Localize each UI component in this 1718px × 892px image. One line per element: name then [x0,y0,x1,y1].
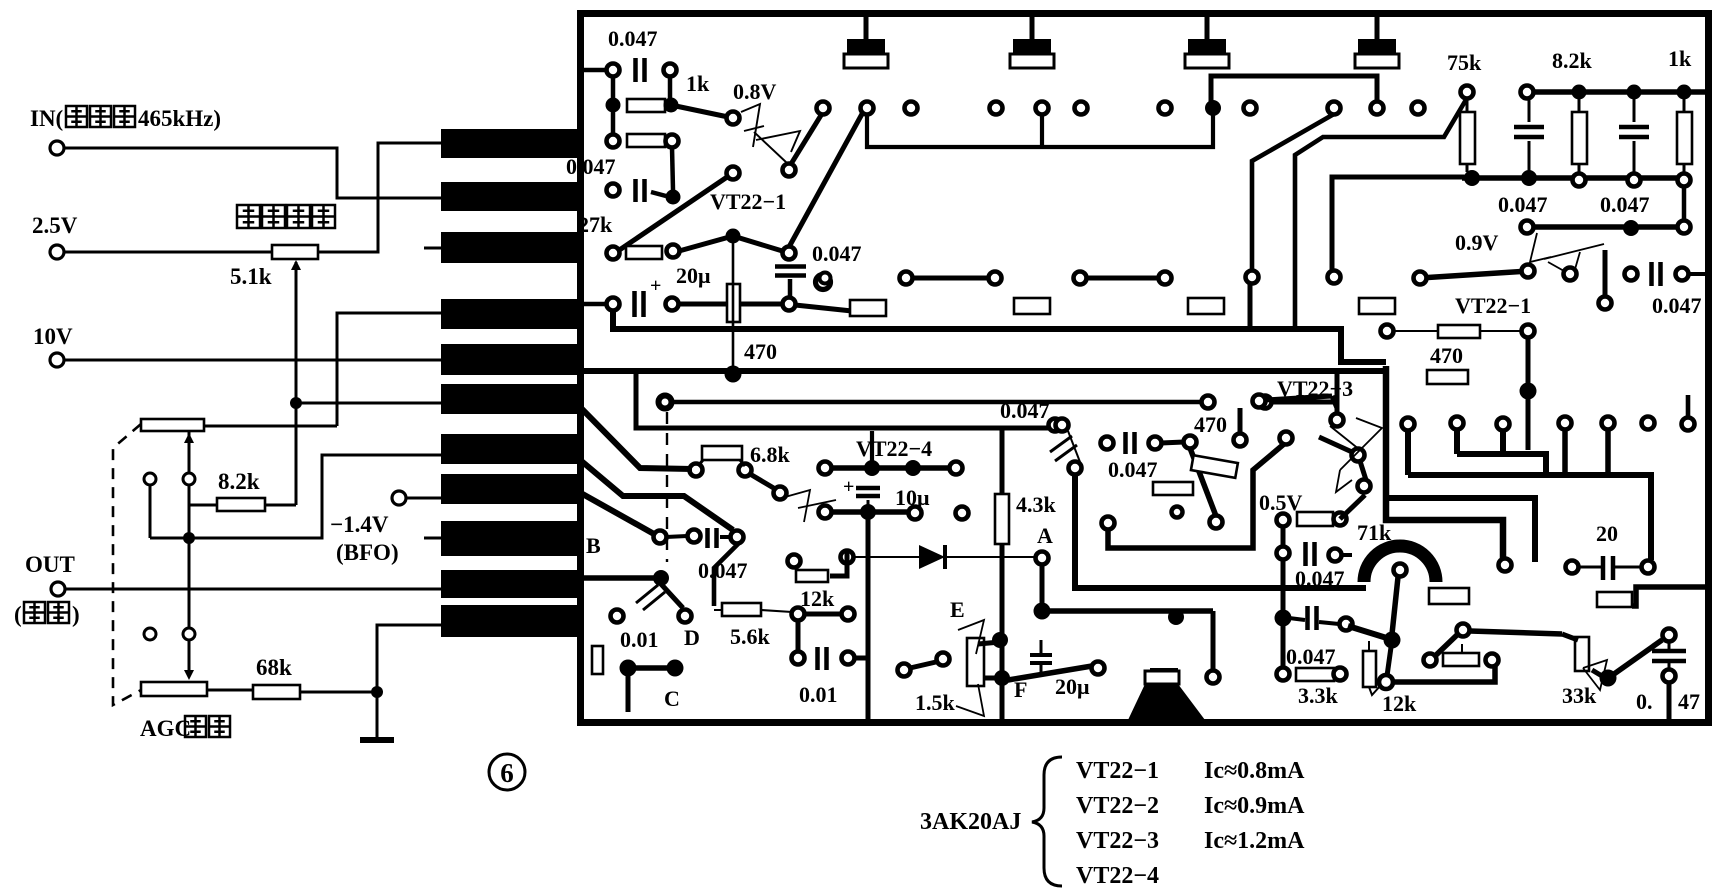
wire BFO to pin8 [406,497,441,500]
junction C b [667,660,684,677]
wire y614 [804,612,842,617]
pad c mid r [1149,437,1162,450]
svg-text:D: D [684,625,700,650]
connector finger pin10 [441,570,579,598]
pad c right 2 [1676,268,1689,281]
trace L5 [1386,498,1535,562]
junction [1572,85,1587,100]
circled 6 figure number [489,754,525,790]
wire diag 33cluster [1434,634,1458,657]
wire [1615,566,1641,569]
wire to bottom edge [1667,682,1672,719]
pad y277 end [1328,271,1341,284]
capacitor 0.047 br [1652,649,1686,654]
wire x1528 down [1526,337,1531,450]
wire [854,656,868,661]
pad 27k right [667,245,680,258]
capacitor 20u [632,291,637,317]
pad top row x1334 [1328,102,1341,115]
pad 20 b [1642,561,1655,574]
transistor VT22-3 symbol [1330,418,1382,492]
pad top row x996 [990,102,1003,115]
pad y227 left [1521,221,1534,234]
resistor 6.8k body [702,446,742,460]
svg-text:VT22−1: VT22−1 [710,189,786,214]
wire 10V to pin5 [64,359,441,362]
wire diagonal 2 [791,112,823,164]
wire diode row [853,556,1035,558]
wire [1360,461,1366,480]
wire R68k right [300,691,377,694]
pad y278 e [1159,272,1172,285]
transistor VT22-1 symbol [741,104,800,163]
junction 05 [1275,610,1292,627]
resistor 27k body [626,246,662,259]
wire [796,620,801,652]
svg-text:1k: 1k [1668,46,1692,71]
capacitor 0047 05b [1305,606,1310,630]
jumper box mid [1153,482,1193,495]
resistor 4.3k body [995,494,1009,544]
svg-text:4.3k: 4.3k [1016,492,1057,517]
wire pot1 wiper [188,431,191,473]
trace right step [1632,587,1706,606]
pad 6.8k left [690,464,703,477]
pad y227 right [1678,221,1691,234]
wire x1283 down [1281,526,1286,668]
wire stub e [1605,429,1611,472]
wire pot1 to pin4 [337,313,441,426]
potentiometer AGC body [141,682,207,696]
jumper left edge [592,646,603,674]
potentiometer 1.5k body [967,638,984,686]
pad 20 a [1566,561,1579,574]
wire [1683,164,1686,176]
pad 6.8k right [739,464,752,477]
wire [1528,98,1531,122]
trace y427 [636,373,1049,428]
svg-text:20μ: 20μ [676,263,711,288]
wire diag [1319,437,1352,452]
terminal 10V [50,353,64,367]
wire diag [661,584,683,608]
trace y371 long [584,368,1386,374]
pad slant right [1522,265,1535,278]
pad staircase top [1280,432,1293,445]
wire riser [1040,114,1044,147]
connector finger pin3 [441,232,579,263]
wire y668 [628,665,675,671]
wire stub b [1454,429,1460,454]
pad VT22-3 d [1358,480,1371,493]
capacitor 0.047 B [705,528,710,548]
trace big C [1075,474,1366,588]
pad 12k wiper [1379,675,1393,689]
junction y468 b [905,460,921,476]
wire R5.1k to pin1 [318,143,441,252]
wire [788,279,793,298]
trace vertical divider x1386 [1386,366,1503,558]
svg-text:IN(: IN( [30,106,63,131]
wire VT22-3 bend [1332,396,1337,408]
pad pot wiper node [183,473,195,485]
junction b [666,190,681,205]
wire top bus [867,114,1213,147]
wire y177 left arm [1332,177,1470,271]
terminal OUT [51,582,65,596]
svg-text:47: 47 [1678,689,1700,714]
pad 4.3k left [956,507,969,520]
junction [1677,85,1692,100]
ground [360,737,394,743]
wire 2.5V to R 5.1k [64,251,272,254]
dashed section line [666,412,668,562]
pad 1240 [1234,434,1247,447]
junction y468 a [864,460,880,476]
pad VT22-3 c [1352,449,1365,462]
pad 0047 d1 [1056,419,1069,432]
trace pin8 to B pad [579,492,654,534]
wire [1578,98,1581,112]
trace pin6 to 6.8k [579,406,692,469]
wire 71k down [1392,577,1398,634]
hanzi she [237,205,260,228]
resistor 470 slanted body [1191,455,1238,478]
junction y611 b [1168,609,1184,625]
wire wiper to pin6 [296,402,441,405]
pad c mid r2 [1184,436,1197,449]
svg-text:20μ: 20μ [1055,674,1090,699]
pad top row x1165 [1159,102,1172,115]
wire bent trace [1252,114,1334,271]
svg-text:5.6k: 5.6k [730,624,771,649]
pad row424 e [1602,417,1615,430]
wire 5.6k right [761,610,792,612]
wire [1578,566,1601,569]
junction A bottom [1034,603,1051,620]
jumper box 470u [1427,370,1468,384]
pad 05 c [1277,547,1290,560]
svg-text:2.5V: 2.5V [32,213,78,238]
resistor r2 body [627,134,665,147]
wire stub c [1500,430,1506,452]
svg-text:0.9V: 0.9V [1455,230,1499,255]
svg-text:0.047: 0.047 [1286,644,1336,669]
resistor 1k body [1677,112,1692,164]
pad c right 1 [1625,268,1638,281]
wire [1068,431,1080,462]
wire [720,535,731,539]
trace end block [1150,668,1178,690]
wire [1668,641,1671,650]
svg-text:20: 20 [1596,521,1618,546]
connector finger pin9 B [441,521,579,556]
pad c1 left [607,64,620,77]
svg-text:+: + [843,476,854,498]
resistor vertical jumper [727,284,740,322]
terminal 2.5V [50,245,64,259]
jumper box right [1597,592,1632,607]
wire pot2 wiper [188,640,191,676]
hanzi zhi [209,716,230,737]
junction y227 [1623,220,1639,236]
dashed gang coupling line [113,424,141,705]
junction C a [620,660,637,677]
junction wiper [290,397,302,409]
junction y512 [860,504,876,520]
wire stub a [1405,430,1411,475]
svg-text:Ic≈1.2mA: Ic≈1.2mA [1204,828,1305,854]
pad 33cluster a [1424,654,1437,667]
pad gang node [144,473,156,485]
wire diag 05 [1340,495,1365,519]
junction 71k [1384,632,1401,649]
pad y178 d [1628,174,1641,187]
connector finger pin1 [441,129,579,158]
PCB board outline [581,14,1709,723]
junction 470 [725,366,742,383]
svg-text:AGC: AGC [140,716,191,741]
capacitor 20 [1601,556,1606,580]
transistor E symbol [956,620,984,716]
svg-text:0.01: 0.01 [799,682,838,707]
svg-text:B: B [586,533,601,558]
svg-text:0.047: 0.047 [1652,293,1702,318]
wire wiper lead [1461,644,1463,653]
pad r2 left [607,135,620,148]
wire pot2 to R68k [207,689,253,692]
pad F left [898,664,911,677]
wire [1341,553,1352,557]
svg-text:0.01: 0.01 [620,627,659,652]
connector finger pin6 [441,384,579,414]
pad c1 right [664,64,677,77]
wire [1578,164,1581,174]
wire [867,500,870,506]
pad y468 a [819,462,832,475]
wire R8.2k to vertical [265,504,296,507]
capacitor 8.2k bank c2 [1619,125,1649,130]
wire top bus right [1527,89,1706,95]
wire right col [1682,186,1687,221]
resistor 8.2k [217,498,265,511]
svg-text:0.: 0. [1636,689,1653,714]
wire 12k top lead [1368,641,1370,651]
wire [1335,402,1340,414]
wire y468 bus [825,465,956,471]
svg-text:VT22−2: VT22−2 [1076,793,1159,819]
wire [668,76,673,100]
wire y512 bus [825,509,915,515]
pad row424 d [1559,417,1572,430]
pad 470u left [1381,325,1394,338]
jumper box x1014 [1014,298,1050,314]
capacitor 0.047 c3 [775,264,806,269]
wire VT22-3 up [1335,372,1340,414]
svg-text:10V: 10V [33,324,73,349]
svg-text:6: 6 [500,758,514,788]
svg-text:470: 470 [1430,343,1463,368]
wire [1319,622,1339,624]
hanzi zeng [287,205,310,228]
svg-text:): ) [72,602,80,627]
svg-text:6.8k: 6.8k [750,442,791,467]
wire riser x872 [870,431,874,462]
svg-text:Ic≈0.8mA: Ic≈0.8mA [1204,758,1305,784]
brace [1032,757,1062,886]
pad row424 f [1642,417,1655,430]
jumper box x1359 [1359,298,1395,314]
svg-text:1k: 1k [686,71,710,96]
wire y278 seg2 [1086,276,1159,281]
pad 001 right [679,610,692,623]
pad row424 c [1497,418,1510,431]
wire [698,460,703,466]
svg-text:0.047: 0.047 [1600,192,1650,217]
trace y329 long [613,310,1386,362]
pad 20u row right [783,298,796,311]
pad row424 b [1451,417,1464,430]
pad 20u left [607,298,620,311]
hanzi er [66,106,87,127]
svg-text:465kHz): 465kHz) [138,106,221,131]
pad 0047 br a [1663,629,1676,642]
wire slight diagonal [795,305,852,311]
junction y578 [653,570,669,586]
svg-text:3.3k: 3.3k [1298,683,1339,708]
wire [978,642,1000,644]
wire to VT22-1 base pad [671,105,733,118]
capacitor 0.01 mid [815,647,820,670]
pad y614 b [842,608,855,621]
wire y633 [1470,631,1562,634]
junction x1528 [1520,383,1537,400]
wire y227 bus [1527,224,1684,230]
junction wiper bus [183,532,195,544]
capacitor 0.047 right [1649,262,1654,286]
connector finger pin4 [441,299,579,329]
junction y178 b [1521,170,1537,186]
wire gang bus [150,537,189,540]
wire [1528,141,1531,172]
trimmer capacitor [1375,17,1380,40]
trace 71k arc [1364,546,1436,582]
pad y468 b [950,462,963,475]
pad VT22-1 emitter [727,167,740,180]
junction peak [726,229,741,244]
hanzi pin2 [262,205,285,228]
wire 470u lead 2 [1480,330,1521,332]
pad lone [816,275,831,290]
jumper box x1188 [1188,298,1224,314]
svg-text:E: E [950,597,965,622]
capacitor diagonal marks 2 [1050,436,1072,452]
pad F right [1092,662,1105,675]
pad y614 a [792,608,805,621]
pad VT22-3 a [1331,414,1344,427]
pad mid [1564,268,1577,281]
hanzi yin [24,602,45,623]
svg-text:8.2k: 8.2k [1552,48,1593,73]
wire [611,76,616,100]
pad 05 e [1340,618,1353,631]
pad A [1036,552,1049,565]
svg-text:1.5k: 1.5k [915,690,956,715]
wire diag 33k [1614,640,1662,674]
pad 0047 br b [1663,670,1676,683]
pad VT22-1 base [727,112,740,125]
junction y178 a [1464,170,1480,186]
pad c2 left [607,184,620,197]
pad 27k left [607,247,620,260]
trimmer capacitor [1205,17,1210,40]
wire 470u lead [1394,330,1438,332]
pad y402 right [1202,396,1215,409]
svg-text:VT22−4: VT22−4 [1076,863,1159,889]
svg-text:12k: 12k [1382,691,1417,716]
resistor 470 upper body [1438,325,1480,338]
wire cap row to junction [1348,626,1390,639]
svg-text:27k: 27k [578,212,613,237]
pad Ctrace top [1069,462,1082,475]
pad gang node 2 [144,628,156,640]
svg-text:VT22−3: VT22−3 [1076,828,1159,854]
wire to ground [376,692,379,738]
trace staircase [1108,444,1284,548]
wire diag F [1008,666,1092,680]
wire [1161,442,1184,443]
capacitor 8.2k bank c1 [1514,125,1544,130]
wire y402 seg [1271,400,1335,405]
trace y611 [1042,608,1213,614]
trace vertical x1002 [1000,544,1005,722]
junction 68k [371,686,383,698]
svg-text:0.047: 0.047 [1498,192,1548,217]
pad 05 b [1334,513,1347,526]
svg-text:VT22−1: VT22−1 [1455,293,1531,318]
arrow 12k wiper [1369,685,1381,695]
pad 001 left [611,610,624,623]
pad top row x867 [861,102,874,115]
wire peak [679,236,789,253]
arrow pot2 wiper [184,670,194,680]
transistor VT22-4 symbol [785,490,836,522]
wire edge stub 2 [584,302,606,307]
wire [1683,98,1686,112]
wire down to 12k pad [1387,640,1392,676]
svg-text:(: ( [14,602,22,627]
wire riser y329 [1248,283,1253,329]
pad top row filled [1205,100,1221,116]
wire bent trace 2 [1295,98,1467,329]
svg-text:0.8V: 0.8V [733,79,777,104]
wire [651,192,666,196]
pad bus left [1521,86,1534,99]
connector finger pin7 [441,434,579,464]
junction 33k [1600,670,1617,687]
pad small mid [1172,507,1183,518]
wire stub d [1562,429,1568,472]
wire slanted [1420,271,1528,278]
pad B3 [731,531,744,544]
wire gang to bus [149,485,152,538]
pad 12k mid a [788,555,801,568]
trace 12k bottom run [1392,666,1495,682]
pad y178 e [1678,174,1691,187]
pad c mid l [1101,437,1114,450]
svg-text:OUT: OUT [25,552,75,577]
pad B1 [654,531,667,544]
